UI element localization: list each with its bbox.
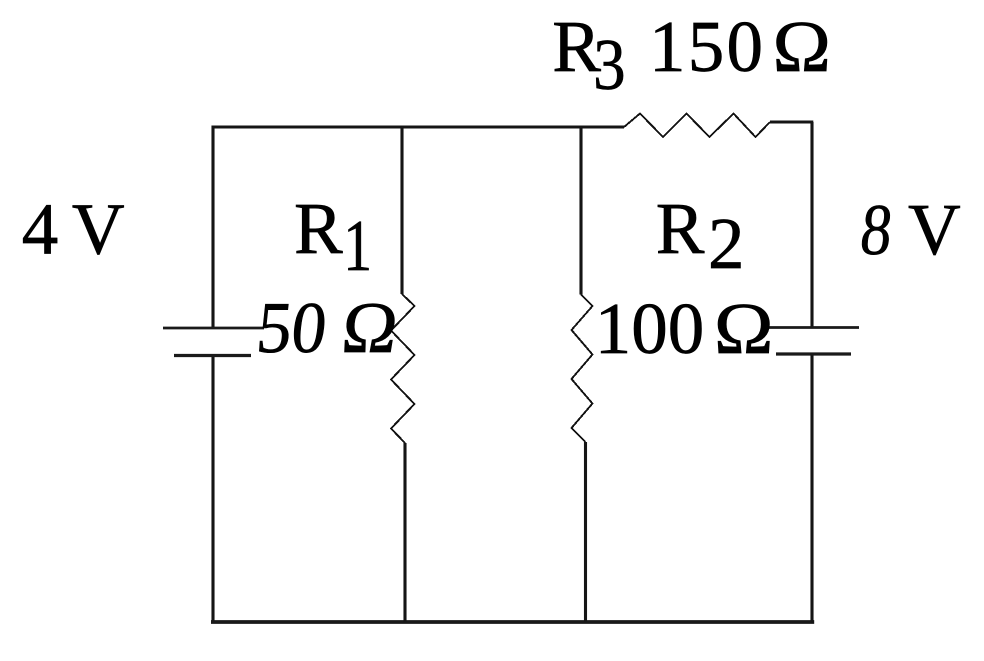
battery B2 long plate [764,326,859,329]
wire top horizontal (left node to R3) [212,125,625,128]
svg-text:150: 150 [649,6,763,87]
battery B2 short plate [776,352,851,355]
wire left vertical lower [211,356,214,624]
svg-text:3: 3 [593,24,626,105]
svg-text:V: V [908,189,961,270]
svg-text:Ω: Ω [714,288,774,369]
wire top-right stub (R3 to right corner) [770,120,813,123]
resistor R2 zigzag [572,295,593,443]
svg-text:R: R [656,188,705,269]
svg-text:2: 2 [708,203,745,284]
wire R2 branch upper [579,126,582,295]
wire bottom horizontal [211,620,814,624]
svg-text:R: R [294,188,343,269]
wire left vertical upper [211,126,214,329]
wire right vertical upper [810,122,813,328]
wire R2 branch lower [584,442,587,622]
svg-text:V: V [72,189,125,270]
wire R1 branch lower [403,443,406,622]
svg-text:4: 4 [22,189,59,270]
svg-text:1: 1 [343,205,372,286]
svg-text:Ω: Ω [338,287,401,368]
resistor R3 zigzag [624,114,770,138]
battery B1 long plate [163,327,264,330]
wire R1 branch upper [400,126,403,295]
svg-text:50: 50 [253,287,330,368]
svg-text:100: 100 [595,288,705,369]
svg-text:Ω: Ω [773,6,832,87]
battery B1 short plate [174,354,251,357]
resistor R1 zigzag [391,294,415,443]
wire right vertical lower [810,354,813,623]
